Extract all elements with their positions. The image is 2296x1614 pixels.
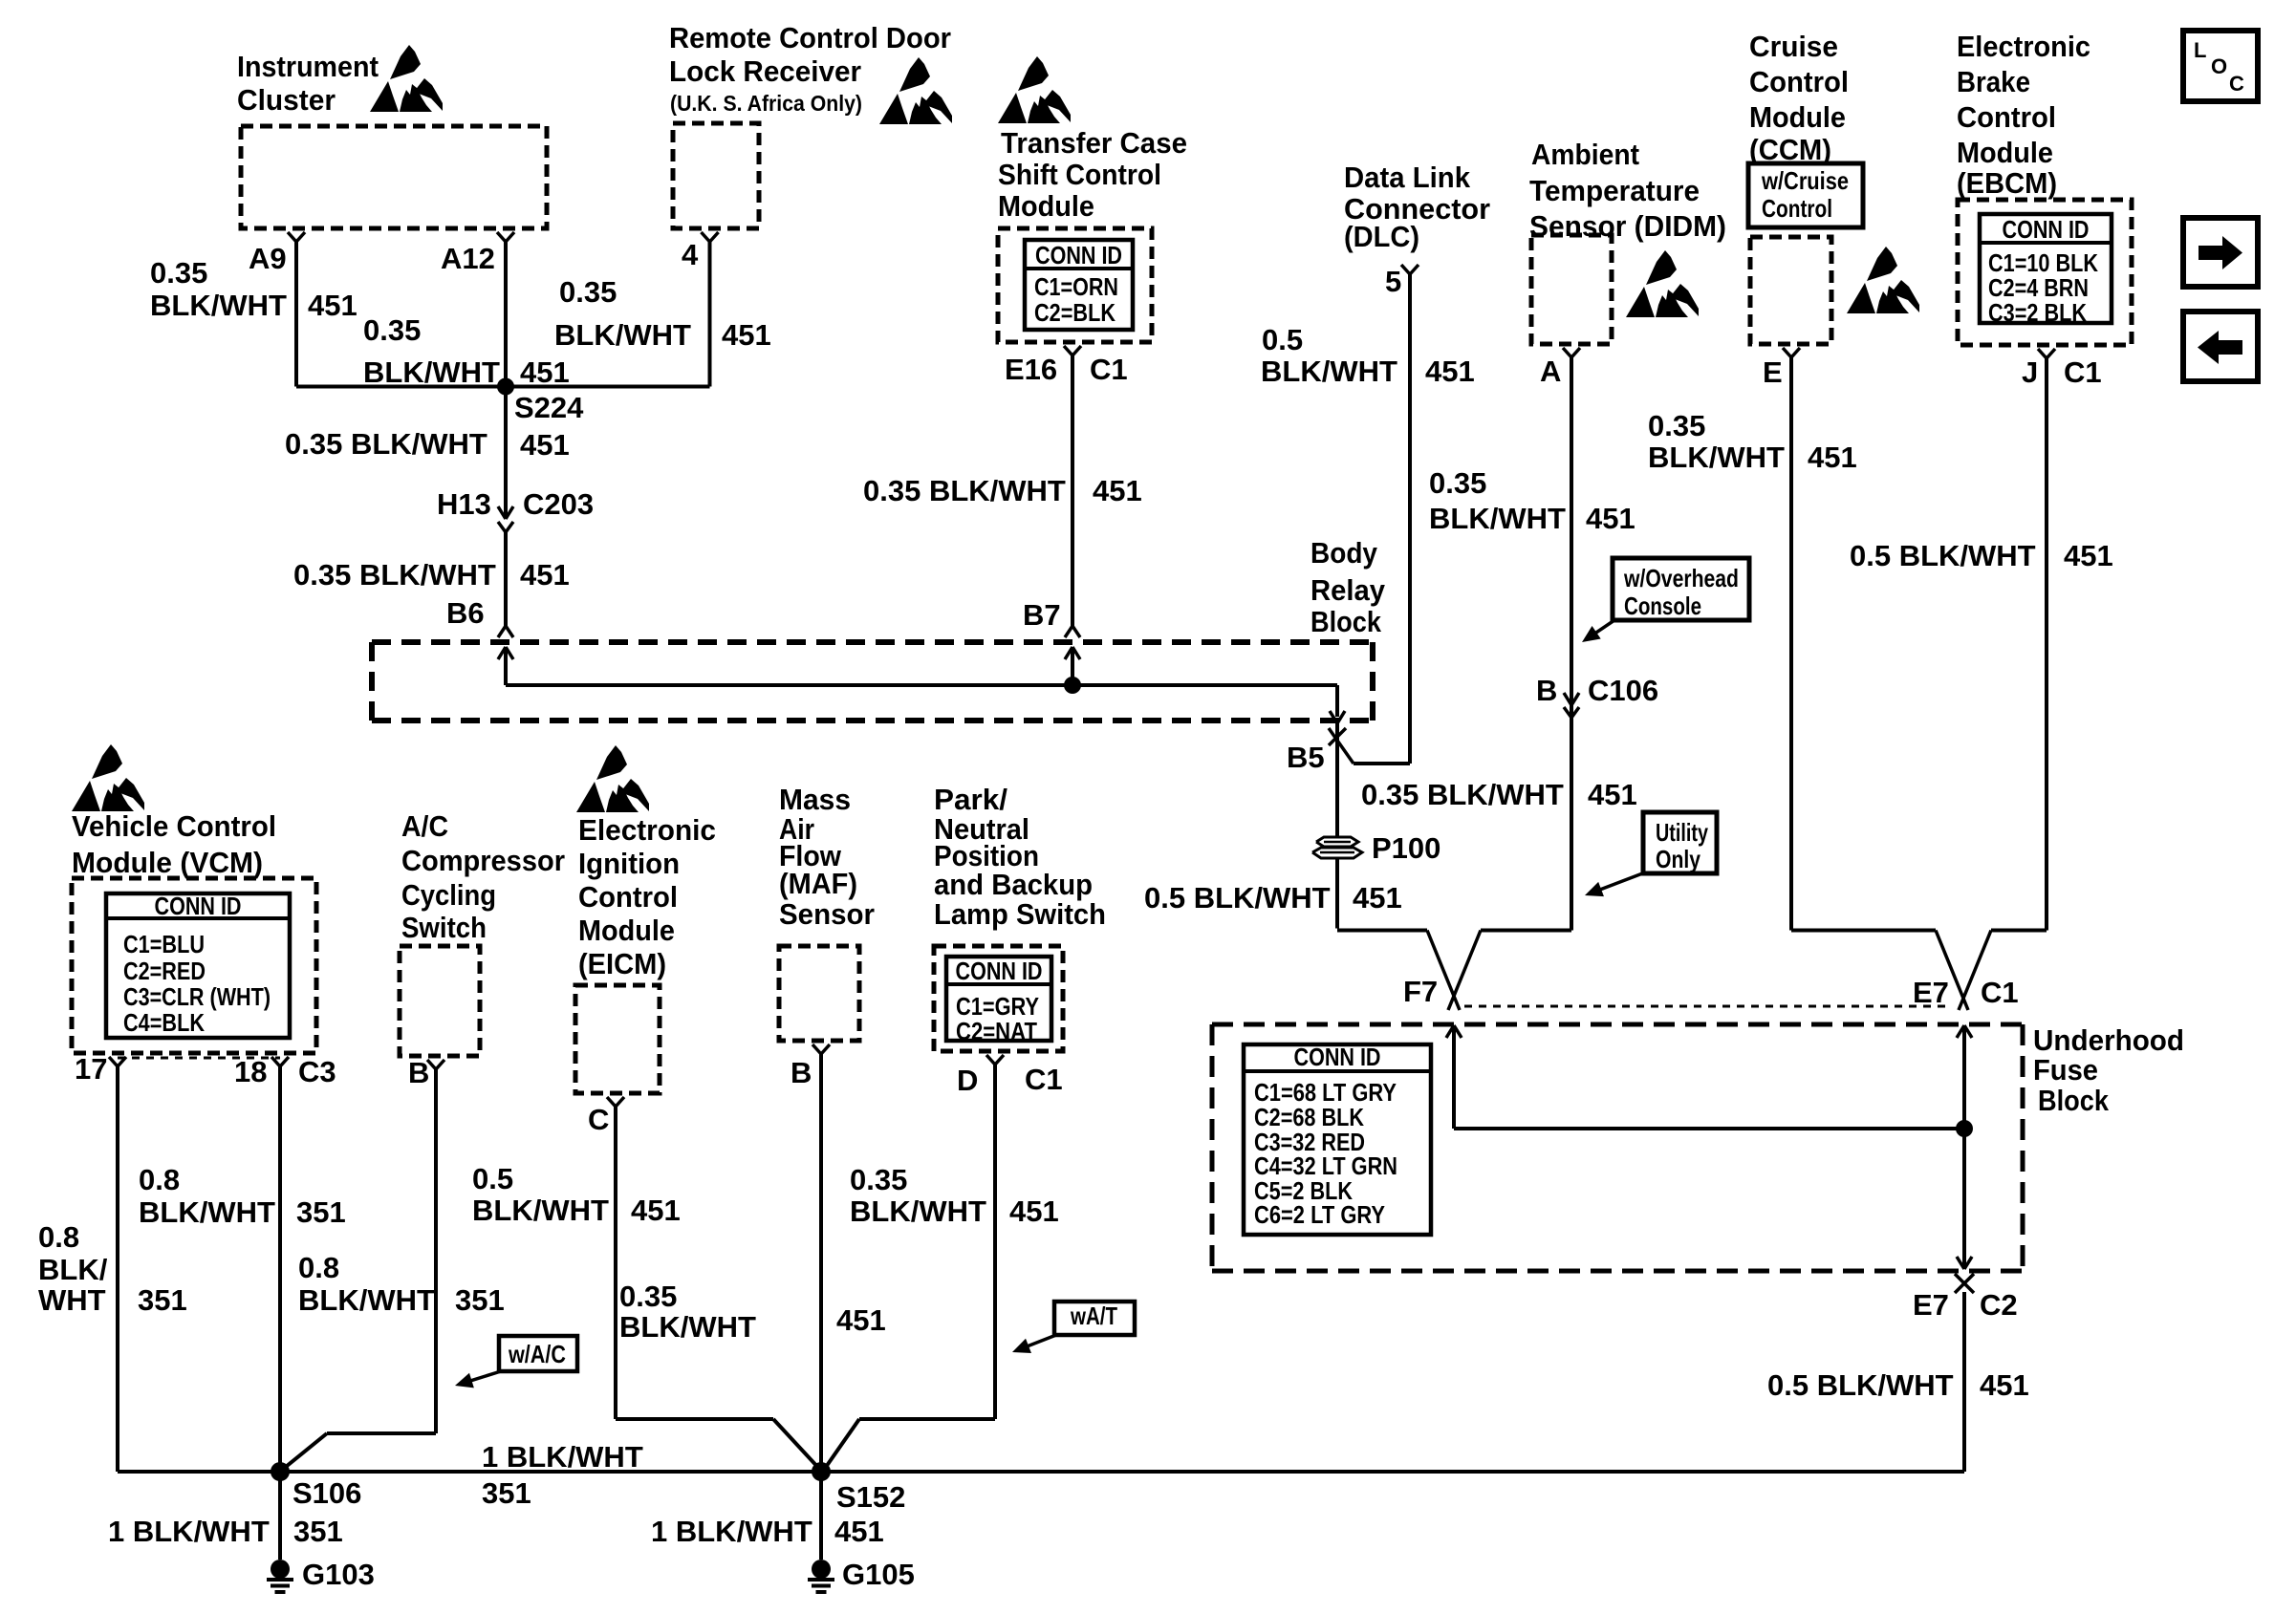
svg-text:E7: E7 (1913, 1288, 1949, 1322)
svg-text:G103: G103 (302, 1558, 375, 1591)
svg-text:0.35: 0.35 (559, 275, 617, 309)
svg-text:E: E (1763, 355, 1783, 389)
svg-text:Utility: Utility (1656, 818, 1708, 847)
svg-text:1 BLK/WHT: 1 BLK/WHT (482, 1440, 643, 1474)
svg-text:B7: B7 (1023, 598, 1061, 632)
svg-text:(MAF): (MAF) (779, 867, 857, 900)
svg-text:Control: Control (1762, 194, 1832, 223)
svg-text:4: 4 (682, 238, 699, 271)
svg-text:0.35: 0.35 (150, 256, 207, 290)
svg-text:BLK/WHT: BLK/WHT (1648, 441, 1785, 474)
svg-text:C2=RED: C2=RED (123, 957, 206, 985)
svg-text:B: B (1536, 674, 1557, 707)
svg-text:CONN ID: CONN ID (1294, 1043, 1381, 1071)
svg-text:Only: Only (1656, 845, 1700, 873)
svg-text:CONN ID: CONN ID (155, 892, 242, 920)
svg-text:Remote Control Door: Remote Control Door (669, 21, 951, 54)
svg-text:0.35: 0.35 (1648, 409, 1705, 442)
svg-text:Brake: Brake (1957, 65, 2030, 98)
svg-text:C2=NAT: C2=NAT (956, 1017, 1037, 1045)
svg-text:451: 451 (1093, 474, 1142, 507)
svg-text:A/C: A/C (401, 809, 448, 843)
svg-text:Cruise: Cruise (1749, 30, 1838, 63)
svg-text:A12: A12 (441, 242, 495, 275)
svg-text:0.8: 0.8 (298, 1251, 339, 1284)
svg-text:351: 351 (455, 1283, 505, 1317)
svg-text:and Backup: and Backup (934, 868, 1093, 901)
svg-text:O: O (2211, 54, 2227, 78)
svg-text:0.8: 0.8 (38, 1220, 79, 1254)
svg-text:B5: B5 (1287, 741, 1325, 774)
svg-text:451: 451 (834, 1515, 884, 1548)
svg-text:G105: G105 (842, 1558, 915, 1591)
svg-text:Sensor (DIDM): Sensor (DIDM) (1529, 209, 1726, 243)
svg-text:Cycling: Cycling (401, 878, 496, 912)
svg-text:451: 451 (520, 428, 570, 462)
svg-text:CONN ID: CONN ID (956, 957, 1043, 985)
svg-text:0.5: 0.5 (472, 1162, 513, 1195)
svg-text:BLK/WHT: BLK/WHT (554, 318, 691, 352)
svg-text:Control: Control (578, 880, 678, 914)
svg-text:0.35 BLK/WHT: 0.35 BLK/WHT (1361, 778, 1564, 811)
svg-text:Module: Module (1749, 100, 1846, 134)
svg-text:0.35 BLK/WHT: 0.35 BLK/WHT (293, 558, 496, 592)
svg-text:(U.K. S. Africa Only): (U.K. S. Africa Only) (670, 91, 862, 116)
svg-text:18: 18 (234, 1055, 267, 1088)
svg-text:Relay: Relay (1310, 573, 1386, 607)
svg-text:Block: Block (1310, 605, 1382, 638)
svg-text:C1: C1 (1981, 976, 2019, 1009)
svg-text:0.35: 0.35 (363, 313, 421, 347)
svg-text:Fuse: Fuse (2033, 1053, 2098, 1087)
svg-text:E7: E7 (1913, 976, 1949, 1009)
svg-text:Data Link: Data Link (1344, 161, 1471, 194)
svg-text:Vehicle Control: Vehicle Control (72, 809, 276, 843)
svg-text:Electronic: Electronic (1957, 30, 2090, 63)
svg-text:D: D (957, 1064, 978, 1097)
svg-text:(EBCM): (EBCM) (1957, 166, 2057, 200)
svg-text:451: 451 (520, 355, 570, 389)
svg-text:Console: Console (1624, 592, 1701, 620)
svg-text:C1: C1 (1025, 1063, 1063, 1096)
svg-text:C3=CLR (WHT): C3=CLR (WHT) (123, 982, 271, 1011)
svg-text:451: 451 (1588, 778, 1637, 811)
svg-text:0.35: 0.35 (850, 1163, 907, 1196)
svg-text:WHT: WHT (38, 1283, 106, 1317)
svg-text:BLK/: BLK/ (38, 1253, 108, 1286)
svg-text:0.5 BLK/WHT: 0.5 BLK/WHT (1767, 1368, 1954, 1402)
svg-text:Module: Module (578, 914, 675, 947)
svg-text:Ambient: Ambient (1531, 138, 1639, 171)
svg-text:451: 451 (520, 558, 570, 592)
svg-text:C106: C106 (1588, 674, 1658, 707)
svg-text:(EICM): (EICM) (578, 947, 666, 980)
svg-text:Instrument: Instrument (237, 50, 379, 83)
svg-text:Temperature: Temperature (1529, 174, 1700, 207)
svg-text:451: 451 (1425, 355, 1475, 388)
svg-text:BLK/WHT: BLK/WHT (850, 1194, 986, 1228)
svg-text:C2=BLK: C2=BLK (1034, 298, 1116, 327)
svg-text:C: C (588, 1103, 609, 1136)
svg-text:351: 351 (482, 1476, 531, 1510)
svg-text:Control: Control (1957, 100, 2056, 134)
svg-text:C1: C1 (2064, 355, 2102, 389)
svg-text:0.5 BLK/WHT: 0.5 BLK/WHT (1144, 881, 1331, 915)
svg-text:B6: B6 (446, 596, 485, 630)
svg-text:(CCM): (CCM) (1749, 133, 1831, 166)
svg-text:F7: F7 (1403, 975, 1438, 1008)
svg-text:B: B (791, 1056, 812, 1089)
svg-text:451: 451 (1980, 1368, 2029, 1402)
svg-text:BLK/WHT: BLK/WHT (150, 289, 287, 322)
svg-text:CONN ID: CONN ID (2003, 215, 2090, 244)
svg-text:0.35: 0.35 (619, 1280, 677, 1313)
svg-text:E16: E16 (1005, 353, 1057, 386)
svg-text:Electronic: Electronic (578, 813, 716, 847)
svg-text:Block: Block (2038, 1084, 2110, 1117)
svg-text:Sensor: Sensor (779, 897, 875, 931)
svg-text:Module: Module (1957, 136, 2053, 169)
svg-text:P100: P100 (1372, 831, 1440, 865)
svg-text:Underhood: Underhood (2033, 1023, 2184, 1057)
svg-text:C1=BLU: C1=BLU (123, 930, 205, 958)
svg-text:L: L (2194, 38, 2206, 62)
svg-text:wA/T: wA/T (1070, 1302, 1117, 1330)
svg-text:Body: Body (1310, 536, 1378, 570)
svg-text:451: 451 (631, 1194, 681, 1227)
svg-text:(DLC): (DLC) (1344, 220, 1419, 253)
svg-text:351: 351 (138, 1283, 187, 1317)
svg-text:451: 451 (2064, 539, 2113, 572)
svg-text:0.5: 0.5 (1262, 323, 1303, 356)
svg-text:B: B (408, 1056, 429, 1089)
svg-text:BLK/WHT: BLK/WHT (1429, 502, 1566, 535)
svg-text:w/A/C: w/A/C (508, 1340, 566, 1368)
svg-text:0.35 BLK/WHT: 0.35 BLK/WHT (285, 427, 487, 461)
svg-text:Shift Control: Shift Control (998, 158, 1161, 191)
svg-text:451: 451 (1586, 502, 1635, 535)
svg-text:C2: C2 (1980, 1288, 2018, 1322)
svg-text:C4=BLK: C4=BLK (123, 1008, 205, 1037)
svg-text:351: 351 (296, 1195, 346, 1229)
svg-text:S152: S152 (836, 1480, 905, 1514)
svg-text:0.5 BLK/WHT: 0.5 BLK/WHT (1850, 539, 2036, 572)
svg-text:351: 351 (293, 1515, 343, 1548)
svg-text:0.8: 0.8 (139, 1163, 180, 1196)
svg-text:Cluster: Cluster (237, 83, 336, 117)
svg-text:1 BLK/WHT: 1 BLK/WHT (108, 1515, 270, 1548)
svg-text:C3: C3 (298, 1055, 336, 1088)
svg-text:Mass: Mass (779, 783, 851, 816)
svg-text:BLK/WHT: BLK/WHT (619, 1310, 756, 1344)
svg-text:S224: S224 (514, 391, 584, 424)
svg-text:Lamp Switch: Lamp Switch (934, 897, 1106, 931)
svg-text:17: 17 (75, 1052, 107, 1086)
svg-text:C6=2 LT GRY: C6=2 LT GRY (1254, 1200, 1385, 1229)
svg-text:A9: A9 (249, 242, 287, 275)
svg-text:C1: C1 (1090, 353, 1128, 386)
svg-text:451: 451 (1009, 1194, 1059, 1228)
svg-text:BLK/WHT: BLK/WHT (298, 1283, 435, 1317)
svg-text:Control: Control (1749, 65, 1849, 98)
svg-text:C203: C203 (523, 487, 594, 521)
svg-text:451: 451 (836, 1303, 886, 1337)
svg-text:H13: H13 (437, 487, 491, 521)
svg-text:451: 451 (1808, 441, 1857, 474)
svg-text:451: 451 (308, 289, 357, 322)
svg-text:A: A (1540, 355, 1561, 388)
svg-text:Module: Module (998, 189, 1094, 223)
svg-text:w/Cruise: w/Cruise (1761, 166, 1849, 195)
svg-text:BLK/WHT: BLK/WHT (472, 1194, 609, 1227)
svg-text:BLK/WHT: BLK/WHT (363, 355, 500, 389)
svg-text:Ignition: Ignition (578, 847, 680, 880)
svg-text:w/Overhead: w/Overhead (1623, 564, 1739, 592)
svg-text:BLK/WHT: BLK/WHT (1261, 355, 1397, 388)
svg-text:C: C (2229, 72, 2244, 96)
svg-text:BLK/WHT: BLK/WHT (139, 1195, 275, 1229)
svg-text:Park/: Park/ (934, 783, 1007, 816)
svg-text:1 BLK/WHT: 1 BLK/WHT (651, 1515, 812, 1548)
svg-text:Compressor: Compressor (401, 844, 565, 877)
svg-text:CONN ID: CONN ID (1035, 241, 1122, 269)
svg-text:S106: S106 (292, 1476, 361, 1510)
svg-text:0.35: 0.35 (1429, 466, 1486, 500)
svg-text:Module (VCM): Module (VCM) (72, 846, 263, 879)
svg-text:C3=2 BLK: C3=2 BLK (1988, 298, 2087, 327)
svg-text:0.35 BLK/WHT: 0.35 BLK/WHT (863, 474, 1066, 507)
svg-text:451: 451 (1353, 881, 1402, 915)
svg-text:451: 451 (722, 318, 771, 352)
svg-text:J: J (2022, 355, 2038, 389)
svg-text:Switch: Switch (401, 911, 487, 944)
svg-text:C1=ORN: C1=ORN (1034, 272, 1118, 301)
svg-text:5: 5 (1385, 265, 1401, 298)
svg-text:Lock Receiver: Lock Receiver (669, 54, 861, 88)
svg-text:Transfer Case: Transfer Case (1001, 126, 1187, 160)
